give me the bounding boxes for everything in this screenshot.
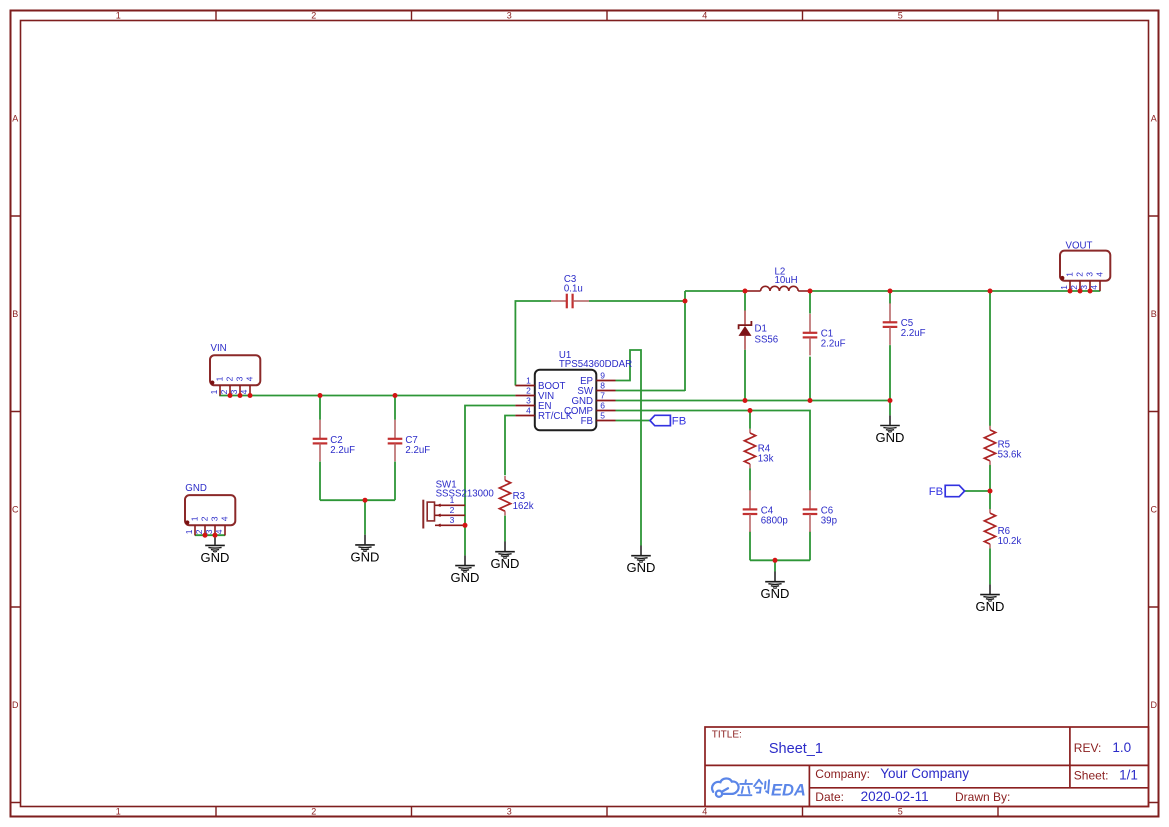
ground GND under C5 xyxy=(880,415,900,432)
svg-text:GND: GND xyxy=(351,549,380,564)
svg-text:B: B xyxy=(1151,309,1157,319)
capacitor C3 xyxy=(551,300,567,302)
node COMP-R4 junction xyxy=(748,408,753,413)
wire C7 branch top xyxy=(394,396,396,420)
svg-text:A: A xyxy=(1151,113,1157,123)
svg-text:4: 4 xyxy=(1095,272,1105,277)
connector VOUT pin 4 xyxy=(1099,281,1101,291)
svg-text:Drawn By:: Drawn By: xyxy=(955,790,1010,804)
svg-text:C: C xyxy=(1150,504,1157,514)
svg-text:6: 6 xyxy=(600,401,605,411)
wire D1 cathode branch xyxy=(744,291,746,311)
svg-text:2: 2 xyxy=(225,376,235,381)
svg-text:VIN: VIN xyxy=(211,343,227,354)
svg-text:GND: GND xyxy=(491,556,520,571)
svg-text:2020-02-11: 2020-02-11 xyxy=(861,789,929,804)
svg-text:6800p: 6800p xyxy=(761,515,788,526)
node VOUT pin3 junction xyxy=(1088,289,1093,294)
svg-text:GND: GND xyxy=(761,586,790,601)
wire C2 branch bottom xyxy=(319,462,321,501)
node SW1 pin3 junction xyxy=(463,523,468,528)
svg-text:4: 4 xyxy=(220,516,230,521)
connector VIN pin 4 xyxy=(249,385,251,395)
node D1 cathode junction xyxy=(743,289,748,294)
connector VOUT pin 2 xyxy=(1079,281,1081,291)
svg-text:1: 1 xyxy=(1065,272,1075,277)
svg-text:2.2uF: 2.2uF xyxy=(901,328,926,339)
svg-text:GND: GND xyxy=(185,483,207,494)
svg-text:A: A xyxy=(12,113,18,123)
wire C5 top branch xyxy=(889,291,891,304)
svg-text:Date:: Date: xyxy=(815,790,844,804)
capacitor C4 xyxy=(749,490,751,509)
diode D1 SS56 xyxy=(744,311,746,325)
capacitor C7 xyxy=(394,420,396,439)
wire C4-C6 bottom bus xyxy=(750,559,810,561)
svg-text:3: 3 xyxy=(526,396,531,406)
svg-text:1/1: 1/1 xyxy=(1119,767,1138,782)
node L2-C1 junction xyxy=(808,289,813,294)
svg-text:REV:: REV: xyxy=(1074,741,1102,755)
connector VOUT body xyxy=(1060,251,1110,281)
svg-text:Your Company: Your Company xyxy=(880,766,969,781)
wire RT/CLK net xyxy=(505,416,515,476)
connector VOUT pin 3 xyxy=(1089,281,1091,291)
wire SW pin to junction xyxy=(616,390,686,392)
wire C2C7 ground tap xyxy=(364,500,366,535)
svg-text:C: C xyxy=(12,504,19,514)
wire C2 branch top xyxy=(319,396,321,420)
wire C1 bottom branch xyxy=(809,357,811,401)
svg-text:SSSS213000: SSSS213000 xyxy=(436,488,495,499)
svg-text:2: 2 xyxy=(194,529,204,534)
svg-text:5: 5 xyxy=(600,411,605,421)
node VIN pin2 junction xyxy=(228,393,233,398)
U1 pin 6 COMP xyxy=(596,410,615,412)
svg-text:2: 2 xyxy=(526,386,531,396)
svg-text:1: 1 xyxy=(190,516,200,521)
wire R3 to ground xyxy=(504,516,506,542)
connector VOUT pin 1 xyxy=(1069,281,1071,291)
svg-text:2.2uF: 2.2uF xyxy=(821,338,846,349)
svg-text:1: 1 xyxy=(184,529,194,534)
svg-text:2: 2 xyxy=(1075,272,1085,277)
svg-text:5: 5 xyxy=(898,11,903,21)
svg-text:2.2uF: 2.2uF xyxy=(330,445,355,456)
wire EN net xyxy=(465,406,515,556)
svg-text:0.1u: 0.1u xyxy=(564,284,583,295)
wire GND connector bus xyxy=(195,534,225,536)
node C2 tap junction xyxy=(318,393,323,398)
wire C4C6 ground tap xyxy=(774,560,776,571)
connector VOUT pin1 marker xyxy=(1060,276,1064,280)
resistor R6 xyxy=(989,509,991,513)
node R5 top junction xyxy=(988,289,993,294)
svg-text:Sheet_1: Sheet_1 xyxy=(769,741,823,757)
U1 pin 9 EP xyxy=(596,380,615,382)
wire main output rail left xyxy=(685,290,745,292)
node C7 tap junction xyxy=(393,393,398,398)
svg-text:1: 1 xyxy=(116,11,121,21)
wire R4 top branch xyxy=(749,411,751,429)
node C3-SW junction xyxy=(683,299,688,304)
switch SW1 body xyxy=(427,502,434,521)
svg-text:4: 4 xyxy=(702,807,707,817)
connector VIN body xyxy=(210,355,260,385)
EasyEDA logo cloud xyxy=(712,779,739,797)
wire C7 branch bottom xyxy=(394,462,396,501)
svg-text:5: 5 xyxy=(898,807,903,817)
ground GND under U1 EP xyxy=(631,546,651,563)
connector GND pin 2 xyxy=(204,525,206,535)
svg-text:GND: GND xyxy=(976,599,1005,614)
wire main output rail right xyxy=(810,290,1100,292)
node VOUT pin2 junction xyxy=(1078,289,1083,294)
wire FB flag to divider xyxy=(965,490,990,492)
svg-text:3: 3 xyxy=(450,515,455,525)
wire SW net vertical xyxy=(684,291,686,391)
wire C3 to SW junction xyxy=(589,300,685,302)
svg-text:2: 2 xyxy=(311,807,316,817)
switch SW1 actuator bar xyxy=(422,500,424,529)
capacitor C2 xyxy=(319,420,321,439)
wire R6 bottom to ground xyxy=(989,548,991,584)
connector GND pin 1 xyxy=(194,525,196,535)
wire C5 ground tap xyxy=(889,401,891,416)
wire C4 bottom branch xyxy=(749,532,751,561)
connector VIN pin1 marker xyxy=(210,381,214,385)
switch SW1 pin 1 xyxy=(435,504,465,506)
resistor R5 xyxy=(989,426,991,430)
svg-text:D: D xyxy=(1150,700,1157,710)
ground GND under C4/C6 xyxy=(765,572,785,589)
capacitor C5 xyxy=(889,303,891,322)
ground GND under R6 xyxy=(980,584,1000,601)
U1 pin 8 SW xyxy=(596,390,615,392)
node C1 bottom junction xyxy=(808,398,813,403)
svg-text:GND: GND xyxy=(201,550,230,565)
net flag FB (right, at divider) xyxy=(945,485,964,496)
svg-text:3: 3 xyxy=(235,376,245,381)
U1 pin 7 GND xyxy=(596,400,615,402)
svg-text:4: 4 xyxy=(702,11,707,21)
wire C5 bottom branch xyxy=(889,345,891,400)
wire BOOT to C3 xyxy=(515,301,551,386)
svg-text:1: 1 xyxy=(1059,285,1069,290)
resistor R4 xyxy=(749,429,751,433)
node VIN pin4 junction xyxy=(248,393,253,398)
ground GND under connector xyxy=(205,535,225,552)
svg-text:FB: FB xyxy=(929,486,943,498)
svg-text:13k: 13k xyxy=(758,453,774,464)
svg-text:4: 4 xyxy=(526,406,531,416)
U1 pin 2 VIN xyxy=(515,395,534,397)
svg-text:2: 2 xyxy=(311,11,316,21)
svg-text:2: 2 xyxy=(200,516,210,521)
connector VIN pin 1 xyxy=(219,385,221,395)
svg-text:Company:: Company: xyxy=(815,767,870,781)
wire VIN net rail xyxy=(219,395,515,397)
svg-text:3: 3 xyxy=(507,807,512,817)
wire EP net to ground xyxy=(616,350,642,546)
svg-text:1.0: 1.0 xyxy=(1112,740,1131,755)
svg-text:FB: FB xyxy=(672,415,686,427)
wire R5 top branch xyxy=(989,291,991,426)
capacitor C6 xyxy=(809,490,811,509)
svg-text:3: 3 xyxy=(507,11,512,21)
U1 pin 4 RT/CLK xyxy=(515,415,534,417)
connector VIN pin 2 xyxy=(229,385,231,395)
svg-text:2.2uF: 2.2uF xyxy=(405,445,430,456)
connector GND pin 3 xyxy=(214,525,216,535)
title block frame xyxy=(705,727,1149,807)
svg-text:1: 1 xyxy=(526,376,531,386)
svg-text:B: B xyxy=(12,309,18,319)
svg-text:3: 3 xyxy=(1085,272,1095,277)
EasyEDA logo text 立创EDA xyxy=(738,780,769,795)
wire R4 to C4 xyxy=(749,468,751,490)
svg-text:2: 2 xyxy=(219,389,229,394)
svg-text:D1: D1 xyxy=(755,323,767,334)
svg-text:TITLE:: TITLE: xyxy=(712,729,742,740)
op-amp U1 TPS54360DDAR body xyxy=(535,370,597,431)
wire FB pin to flag xyxy=(616,420,651,422)
svg-text:9: 9 xyxy=(600,371,605,381)
switch SW1 pin 2 xyxy=(435,514,465,516)
node GND conn pin3 junction xyxy=(213,533,218,538)
ground GND under R3 xyxy=(495,542,515,559)
U1 pin 1 BOOT xyxy=(515,385,534,387)
node C5 gnd junction xyxy=(888,398,893,403)
svg-text:1: 1 xyxy=(215,376,225,381)
wire D1 anode branch xyxy=(744,350,746,401)
connector GND pin 4 xyxy=(224,525,226,535)
svg-text:39p: 39p xyxy=(821,515,837,526)
svg-text:162k: 162k xyxy=(513,501,534,512)
svg-text:4: 4 xyxy=(245,376,255,381)
switch SW1 pin 3 xyxy=(435,524,465,526)
node C2C7 ground junction xyxy=(363,498,368,503)
U1 pin 5 FB xyxy=(596,420,615,422)
net flag FB (left, at U1 pin 5) xyxy=(650,415,671,425)
connector GND pin1 marker xyxy=(185,520,189,524)
svg-text:TPS54360DDAR: TPS54360DDAR xyxy=(559,359,632,370)
svg-text:FB: FB xyxy=(581,416,593,427)
svg-text:GND: GND xyxy=(876,430,905,445)
wire COMP net xyxy=(616,411,811,491)
wire C6 bottom branch xyxy=(809,532,811,561)
node C5 top junction xyxy=(888,289,893,294)
svg-text:3: 3 xyxy=(210,516,220,521)
svg-text:2: 2 xyxy=(450,505,455,515)
wire power ground bus xyxy=(616,400,891,402)
node VOUT pin1 junction xyxy=(1068,289,1073,294)
svg-text:GND: GND xyxy=(451,570,480,585)
svg-text:Sheet:: Sheet: xyxy=(1074,768,1109,782)
capacitor C1 xyxy=(809,314,811,333)
svg-text:GND: GND xyxy=(627,560,656,575)
node FB divider junction xyxy=(988,489,993,494)
svg-text:53.6k: 53.6k xyxy=(998,450,1022,461)
inductor L2 xyxy=(745,290,761,292)
svg-text:10.2k: 10.2k xyxy=(998,536,1022,547)
svg-text:D: D xyxy=(12,700,19,710)
svg-text:1: 1 xyxy=(209,389,219,394)
node D1 anode junction xyxy=(743,398,748,403)
connector GND body xyxy=(185,495,235,525)
wire C2-C7 bottom bus xyxy=(320,499,395,501)
svg-text:SS56: SS56 xyxy=(755,334,779,345)
svg-text:1: 1 xyxy=(116,807,121,817)
wire C1 top branch xyxy=(809,291,811,314)
connector VIN pin 3 xyxy=(239,385,241,395)
U1 pin 3 EN xyxy=(515,405,534,407)
ground GND under SW1 xyxy=(455,555,475,572)
svg-text:8: 8 xyxy=(600,381,605,391)
node GND conn pin2 junction xyxy=(203,533,208,538)
wire R5 bottom to FB node xyxy=(989,465,991,509)
svg-text:EDA: EDA xyxy=(771,782,806,800)
ground GND under C2/C7 xyxy=(355,535,375,552)
resistor R3 xyxy=(504,476,506,480)
svg-text:10uH: 10uH xyxy=(775,275,798,286)
node C4C6 ground junction xyxy=(773,558,778,563)
svg-text:7: 7 xyxy=(600,391,605,401)
node VIN pin3 junction xyxy=(238,393,243,398)
